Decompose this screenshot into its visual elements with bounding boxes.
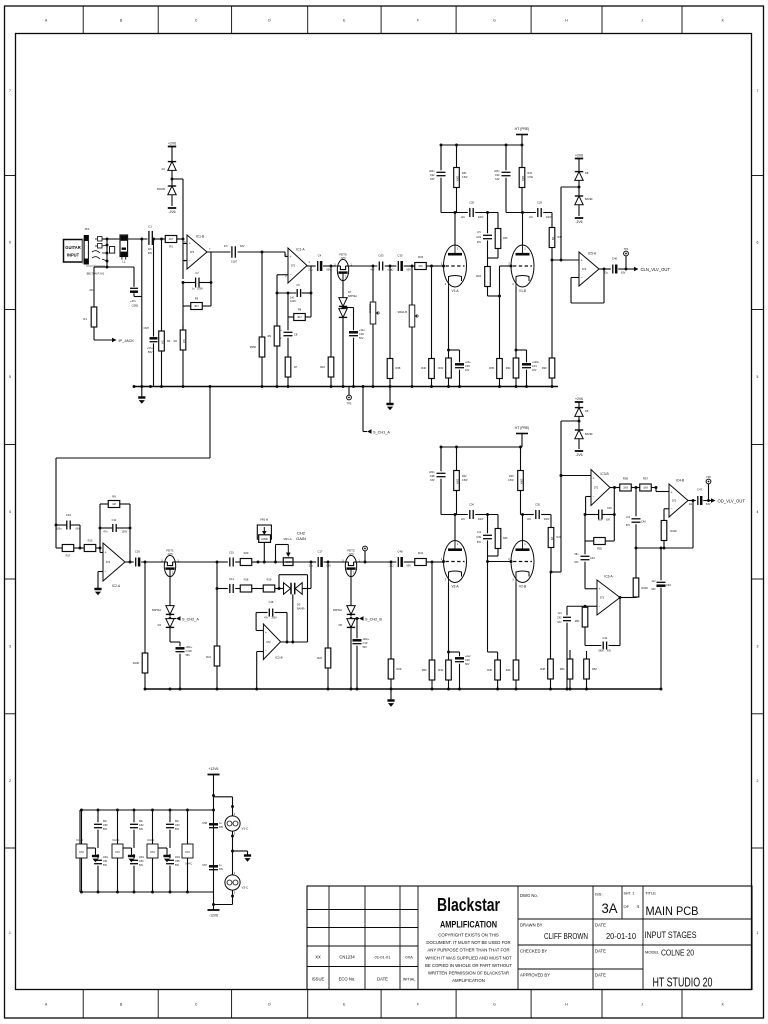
- svg-text:+: +: [290, 255, 292, 259]
- wire V1-A plate: [454, 213, 456, 246]
- op-amp supply IC1-C: [81, 810, 83, 844]
- diode D2: [168, 186, 176, 195]
- svg-text:IC2-A: IC2-A: [112, 584, 121, 588]
- svg-text:R45: R45: [487, 668, 492, 672]
- svg-text:S_CH1_A: S_CH1_A: [373, 431, 390, 435]
- diode D4: [169, 577, 171, 606]
- svg-text:16V: 16V: [465, 369, 470, 372]
- resistor R55: [584, 515, 586, 542]
- op-amp IC3-B: [591, 470, 610, 506]
- svg-text:−: −: [671, 507, 673, 511]
- wire input ground leg: [140, 238, 143, 241]
- svg-text:072: 072: [594, 486, 599, 490]
- svg-text:R54: R54: [560, 667, 565, 671]
- svg-text:50V: 50V: [175, 829, 180, 831]
- wire D6 bias: [561, 420, 579, 422]
- net OD_VLV_OUT: [711, 498, 716, 502]
- resistor R2: [182, 306, 184, 330]
- svg-text:J: J: [641, 1003, 643, 1007]
- svg-text:+220u: +220u: [532, 361, 539, 364]
- svg-text:100K: 100K: [456, 176, 459, 182]
- svg-text:100n: 100n: [139, 857, 145, 859]
- wire plate row V2-A: [441, 514, 468, 516]
- svg-text:01-01-01: 01-01-01: [374, 955, 391, 960]
- svg-text:WRITTEN PERMISSION OF BLACKSTA: WRITTEN PERMISSION OF BLACKSTAR: [428, 971, 509, 976]
- svg-text:BE COPIED IN WHOLE OR PART WIT: BE COPIED IN WHOLE OR PART WITHOUT: [425, 963, 512, 968]
- svg-text:IC2-B: IC2-B: [275, 656, 283, 660]
- svg-text:R22: R22: [317, 656, 322, 660]
- ground IC2-A: [98, 571, 103, 573]
- svg-text:47n: 47n: [224, 245, 229, 248]
- resistor R4: [161, 239, 163, 330]
- svg-text:0.5W: 0.5W: [528, 177, 534, 179]
- svg-text:072: 072: [672, 499, 677, 503]
- svg-text:100n: 100n: [56, 528, 62, 531]
- resistor R29: [390, 562, 392, 657]
- svg-text:GUITAR: GUITAR: [65, 245, 80, 250]
- power +2V6 D8: [575, 158, 583, 160]
- svg-text:072: 072: [291, 264, 296, 268]
- wire to IC1-A: [262, 251, 285, 253]
- svg-text:C43: C43: [590, 556, 595, 560]
- wire IC3-B out: [610, 487, 620, 489]
- wire to V2-B grid: [488, 561, 512, 563]
- wire interstage link: [209, 387, 211, 459]
- svg-text:63V: 63V: [606, 520, 611, 522]
- wire bias to op-amp: [182, 179, 184, 244]
- valve V1-B: [511, 245, 534, 287]
- resistor R46: [497, 515, 499, 528]
- wire L1 to C1: [128, 238, 148, 240]
- resistor R13: [80, 547, 84, 549]
- capacitor C52: [133, 810, 135, 822]
- power -2V6 D6: [575, 450, 583, 452]
- transistor FET1: [164, 555, 175, 576]
- svg-text:50V: 50V: [139, 865, 144, 867]
- wire IC4-B feedback: [636, 547, 693, 549]
- svg-text:IC4-B: IC4-B: [676, 479, 684, 483]
- wire IC2-B out: [281, 641, 308, 643]
- capacitor C58: [209, 823, 218, 826]
- svg-text:C49: C49: [666, 583, 671, 587]
- wire D3 to main: [310, 562, 312, 589]
- capacitor C46: [635, 488, 637, 517]
- wire plate row B: [506, 212, 536, 214]
- ground CH2 bus: [390, 689, 392, 701]
- resistor R24: [487, 258, 489, 264]
- svg-text:100V: 100V: [197, 288, 203, 291]
- svg-text:63V: 63V: [477, 542, 482, 544]
- capacitor C107: [153, 239, 155, 337]
- svg-text:DRAWN BY: DRAWN BY: [520, 923, 543, 928]
- resistor R7: [287, 356, 289, 357]
- svg-text:C53: C53: [139, 860, 144, 863]
- svg-text:C187: C187: [231, 260, 238, 264]
- svg-text:R42: R42: [462, 475, 467, 478]
- svg-text:C57: C57: [202, 863, 207, 867]
- svg-text:C15: C15: [229, 551, 234, 555]
- wire IC2-B ground leg: [256, 652, 258, 690]
- resistor R18: [235, 588, 240, 590]
- capacitor C100: [170, 641, 180, 643]
- op-amp IC5-A: [579, 252, 599, 286]
- svg-text:47n: 47n: [103, 531, 108, 534]
- svg-text:C17: C17: [317, 550, 323, 554]
- svg-text:V1-C: V1-C: [242, 827, 250, 831]
- svg-text:AMPLIFICATION: AMPLIFICATION: [440, 920, 497, 931]
- svg-text:+10u: +10u: [359, 329, 365, 332]
- svg-text:100V: 100V: [122, 531, 128, 534]
- svg-text:BAV99: BAV99: [585, 198, 593, 201]
- svg-text:C32: C32: [430, 173, 435, 177]
- svg-text:3: 3: [757, 645, 759, 649]
- svg-text:C8: C8: [294, 333, 298, 337]
- svg-text:BAT54A: BAT54A: [348, 295, 357, 298]
- title block: [307, 886, 752, 990]
- svg-text:R202: R202: [671, 529, 678, 533]
- svg-text:OD_VLV_OUT: OD_VLV_OUT: [718, 499, 746, 504]
- svg-text:072: 072: [185, 850, 190, 854]
- connector JK1 guitar input: [64, 240, 83, 263]
- svg-text:F: F: [417, 19, 419, 23]
- wire IC4-B out: [688, 500, 696, 502]
- svg-text:IC1-A: IC1-A: [296, 248, 305, 252]
- title block fields: [517, 886, 519, 990]
- op-amp IC3-A: [597, 580, 620, 615]
- wire D3 mid tap: [292, 594, 294, 642]
- svg-text:1M: 1M: [551, 237, 554, 240]
- svg-text:0.5W: 0.5W: [462, 480, 468, 482]
- resistor R17: [56, 547, 62, 549]
- svg-text:R29: R29: [397, 667, 402, 671]
- svg-text:INITIAL: INITIAL: [403, 978, 416, 982]
- svg-text:+: +: [599, 587, 601, 591]
- svg-text:R56: R56: [623, 477, 629, 481]
- wire IC1-B out: [207, 251, 230, 253]
- capacitor C44 feedback: [585, 645, 601, 647]
- svg-text:4K7: 4K7: [194, 304, 199, 308]
- svg-text:V2-A: V2-A: [451, 585, 459, 589]
- svg-text:C39: C39: [476, 535, 481, 539]
- ground psu: [159, 847, 168, 849]
- svg-text:IP_JACK: IP_JACK: [119, 339, 135, 343]
- svg-text:072: 072: [266, 640, 271, 644]
- svg-text:220n: 220n: [429, 471, 435, 474]
- svg-text:1K8: 1K8: [623, 486, 628, 490]
- svg-text:−: −: [189, 259, 191, 263]
- resistor R6 feedback: [99, 504, 101, 548]
- valve V2-A: [444, 541, 467, 583]
- svg-text:+: +: [105, 551, 107, 555]
- svg-text:2K2: 2K2: [89, 288, 95, 292]
- svg-text:IC3-B: IC3-B: [601, 472, 609, 476]
- svg-text:BAV99: BAV99: [585, 433, 593, 436]
- resistor R34: [413, 265, 415, 267]
- svg-text:0.5W: 0.5W: [508, 480, 514, 482]
- wire plate row V2-B: [521, 514, 534, 516]
- potentiometer VR51-B: [372, 265, 375, 268]
- capacitor C45 feedback: [586, 496, 591, 498]
- svg-text:−: −: [290, 273, 292, 277]
- diode D1: [171, 147, 173, 162]
- svg-text:63V: 63V: [557, 622, 562, 624]
- svg-text:50V: 50V: [139, 829, 144, 831]
- resistor R1 2K2: [94, 266, 107, 268]
- capacitor C19: [356, 617, 359, 620]
- capacitor C40: [612, 265, 614, 274]
- svg-text:C48: C48: [397, 550, 403, 554]
- svg-text:C47: C47: [697, 488, 703, 492]
- svg-text:C2: C2: [195, 271, 199, 275]
- capacitor C35: [397, 261, 399, 271]
- svg-text:R6: R6: [112, 495, 116, 499]
- svg-text:63V: 63V: [495, 178, 500, 181]
- svg-text:6: 6: [757, 241, 759, 245]
- svg-text:50V: 50V: [465, 663, 470, 666]
- svg-text:47n: 47n: [148, 248, 153, 251]
- svg-text:63V: 63V: [706, 503, 711, 506]
- svg-text:+: +: [593, 477, 595, 481]
- svg-text:−: −: [105, 570, 107, 574]
- svg-text:S_CH2_A: S_CH2_A: [182, 618, 199, 622]
- svg-text:C55: C55: [175, 860, 180, 863]
- svg-text:VRH1-B: VRH1-B: [397, 310, 407, 314]
- svg-text:D7: D7: [348, 290, 352, 294]
- svg-text:-2V6: -2V6: [575, 220, 582, 224]
- svg-text:-12V6: -12V6: [209, 914, 218, 918]
- heater V2-C: [232, 831, 234, 875]
- svg-text:072: 072: [150, 850, 155, 854]
- svg-text:−: −: [599, 605, 601, 609]
- svg-text:C18: C18: [269, 600, 274, 604]
- resistor R47: [550, 515, 552, 527]
- capacitor C35B: [535, 510, 537, 519]
- svg-text:C52: C52: [139, 824, 144, 827]
- svg-text:R100: R100: [133, 661, 140, 665]
- svg-text:63V: 63V: [219, 827, 224, 829]
- svg-text:BELTON PJ-01: BELTON PJ-01: [87, 272, 105, 276]
- capacitor C4: [307, 265, 316, 267]
- net S_CH2_B: [351, 618, 359, 620]
- svg-text:ECO No.: ECO No.: [339, 977, 356, 982]
- svg-text:ISS:: ISS:: [595, 892, 603, 897]
- svg-text:D6: D6: [585, 409, 589, 413]
- svg-text:C54: C54: [175, 824, 180, 827]
- svg-text:R44: R44: [506, 668, 511, 672]
- svg-text:C51: C51: [103, 860, 108, 863]
- svg-text:22u: 22u: [689, 503, 694, 506]
- transistor FET6: [337, 259, 348, 280]
- node bias junction: [182, 238, 185, 241]
- svg-text:400V: 400V: [546, 217, 552, 219]
- resistor R41: [413, 561, 415, 563]
- transistor FET2: [328, 561, 345, 563]
- svg-text:R21: R21: [206, 655, 211, 659]
- svg-text:C31: C31: [532, 364, 537, 368]
- svg-text:+2V6: +2V6: [575, 153, 583, 157]
- svg-text:R1: R1: [83, 317, 87, 321]
- svg-text:50V: 50V: [359, 337, 364, 340]
- svg-text:400V: 400V: [478, 217, 484, 219]
- svg-text:R9: R9: [268, 334, 272, 338]
- resistor R5 feedback: [182, 283, 184, 307]
- wire D3 bypass loop: [278, 575, 280, 589]
- op-amp supply IC4-C: [187, 810, 189, 844]
- svg-text:20-01-10: 20-01-10: [606, 932, 637, 941]
- resistor R39: [551, 260, 553, 357]
- capacitor C53: [133, 854, 135, 858]
- potentiometer VRH1-B: [411, 266, 413, 302]
- power -12V6: [208, 909, 220, 911]
- wire V2-B plate: [522, 515, 524, 541]
- resistor R19: [257, 588, 263, 590]
- revision table: [307, 909, 418, 911]
- svg-text:CM7: CM7: [144, 326, 150, 330]
- svg-text:C20: C20: [359, 332, 364, 336]
- svg-text:C4: C4: [318, 254, 322, 258]
- svg-text:V2-C: V2-C: [242, 886, 250, 890]
- svg-text:R48: R48: [540, 667, 545, 671]
- svg-text:63V: 63V: [626, 525, 631, 527]
- svg-text:R34: R34: [506, 366, 511, 370]
- svg-text:C42: C42: [557, 617, 562, 620]
- jack contacts: [98, 237, 103, 242]
- svg-text:VR1-A: VR1-A: [283, 537, 291, 541]
- svg-text:D1: D1: [162, 167, 166, 171]
- svg-text:INPUT STAGES: INPUT STAGES: [645, 930, 697, 940]
- resistor R48: [550, 572, 552, 658]
- capacitor C20: [343, 307, 354, 309]
- svg-text:IC1-C: IC1-C: [77, 838, 84, 842]
- resistor R20: [235, 561, 240, 563]
- svg-text:DATE: DATE: [377, 977, 388, 982]
- svg-text:J175: J175: [167, 553, 173, 556]
- svg-text:+: +: [671, 490, 673, 494]
- wire bias to IC5-A: [561, 186, 579, 188]
- svg-text:3: 3: [9, 645, 11, 649]
- wire jack tip to L1: [102, 238, 118, 240]
- svg-text:D8: D8: [585, 171, 589, 175]
- resistor R40: [431, 266, 433, 357]
- svg-text:R46: R46: [503, 537, 508, 540]
- wire V2-A plate: [454, 515, 456, 541]
- resistor R56: [610, 487, 620, 489]
- capacitor C49: [660, 548, 662, 580]
- svg-text:C50: C50: [103, 824, 108, 827]
- capacitor C12 feedback: [100, 527, 112, 529]
- svg-text:-2V6: -2V6: [575, 453, 582, 457]
- svg-text:C12: C12: [112, 518, 117, 522]
- svg-text:APPROVED BY: APPROVED BY: [520, 973, 550, 978]
- svg-text:BAT54A: BAT54A: [333, 609, 342, 612]
- capacitor C34: [469, 510, 471, 519]
- ground CH1 mid: [389, 387, 391, 405]
- svg-text:4: 4: [9, 510, 11, 514]
- svg-text:16V: 16V: [532, 369, 537, 372]
- svg-text:22u: 22u: [308, 269, 313, 272]
- svg-text:J175: J175: [340, 257, 346, 260]
- svg-text:10K: 10K: [418, 264, 423, 268]
- svg-text:1: 1: [757, 931, 759, 935]
- svg-text:5: 5: [757, 375, 759, 379]
- resistor R100: [144, 562, 146, 652]
- diode network D3: [278, 587, 281, 590]
- power -2V6: [168, 207, 176, 209]
- svg-text:TP3: TP3: [347, 402, 352, 406]
- svg-text:100n: 100n: [103, 857, 109, 859]
- svg-text:2: 2: [9, 779, 11, 783]
- capacitor C23: [487, 213, 489, 234]
- svg-text:C10: C10: [66, 513, 72, 517]
- capacitor C8: [284, 331, 293, 333]
- capacitor C50: [97, 810, 99, 822]
- svg-text:C30: C30: [465, 364, 470, 368]
- svg-text:220n: 220n: [494, 170, 500, 173]
- svg-text:220n: 220n: [429, 170, 435, 173]
- svg-text:63V: 63V: [148, 252, 153, 255]
- svg-text:6: 6: [9, 241, 11, 245]
- svg-text:100n: 100n: [175, 857, 181, 859]
- resistor R49: [520, 447, 522, 469]
- resistor R10: [330, 266, 332, 356]
- svg-text:C28: C28: [469, 201, 474, 205]
- svg-text:R3: R3: [169, 245, 173, 249]
- node bias tap: [171, 178, 174, 181]
- svg-text:100n+: 100n+: [363, 638, 370, 641]
- svg-text:R20: R20: [244, 551, 249, 555]
- svg-text:R50: R50: [422, 668, 427, 672]
- svg-text:+22u: +22u: [465, 361, 471, 364]
- capacitor C1: [148, 231, 150, 245]
- svg-text:V1-A: V1-A: [451, 289, 459, 293]
- svg-text:100n+: 100n+: [186, 646, 193, 649]
- svg-text:100K: 100K: [456, 479, 459, 485]
- wire into IC3-B: [561, 475, 591, 477]
- capacitor C16: [135, 558, 137, 567]
- svg-text:22u: 22u: [309, 565, 314, 568]
- svg-text:50V: 50V: [407, 565, 412, 568]
- capacitor C42: [567, 605, 585, 607]
- wire ring bus: [107, 266, 134, 268]
- svg-text:DWG No.: DWG No.: [520, 893, 538, 898]
- svg-text:4: 4: [757, 510, 759, 514]
- svg-text:100V: 100V: [271, 618, 277, 620]
- resistor R45: [487, 562, 489, 653]
- wire to IC4-B: [656, 491, 669, 493]
- diode D6: [578, 402, 580, 408]
- svg-text:5: 5: [9, 375, 11, 379]
- op-amp IC1-A: [288, 248, 307, 283]
- svg-text:DATE: DATE: [595, 949, 606, 954]
- wire psu top rail: [80, 809, 214, 811]
- svg-text:7: 7: [757, 89, 759, 93]
- svg-text:C34: C34: [469, 503, 474, 507]
- svg-text:C45: C45: [607, 507, 612, 510]
- resistor R37: [551, 213, 553, 227]
- svg-text:63V: 63V: [240, 245, 245, 248]
- cathode network V1-A: [448, 287, 450, 356]
- cathode network V2-B: [515, 583, 517, 660]
- svg-text:VR1-B: VR1-B: [260, 518, 268, 522]
- svg-text:J: J: [641, 19, 643, 23]
- resistor R32: [521, 145, 523, 166]
- ground heater mid: [233, 850, 248, 852]
- svg-text:0.5W: 0.5W: [462, 177, 468, 179]
- svg-text:A250K: A250K: [261, 538, 268, 541]
- op-amp supply IC2-C: [117, 810, 119, 844]
- svg-text:R13: R13: [88, 539, 93, 543]
- svg-text:R203: R203: [642, 586, 649, 590]
